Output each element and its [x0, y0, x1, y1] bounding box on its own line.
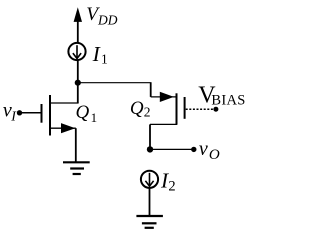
svg-text:2: 2: [168, 179, 175, 195]
ground (I2): [136, 216, 163, 228]
power supply VDD arrow: [74, 7, 82, 43]
ground (Q1 source): [63, 162, 90, 174]
svg-text:Q: Q: [130, 98, 144, 119]
label I2: [160, 168, 176, 194]
net label VDD: [86, 4, 118, 28]
input terminal vI dot and gate wire: [17, 110, 41, 115]
wire: I2 to ground: [149, 188, 151, 216]
wire: node A to Q2 source: [78, 83, 177, 97]
wire: Q1 source down to ground: [75, 128, 77, 162]
wire: node A down to Q1 drain lead: [49, 83, 78, 103]
transistor Q1 (NMOS, source arrow): [42, 95, 76, 136]
svg-text:Q: Q: [76, 102, 90, 123]
svg-text:DD: DD: [97, 12, 118, 27]
node B: output junction dot: [147, 146, 153, 152]
transistor Q2 (mirrored, source arrow pointing in): [160, 92, 185, 125]
label vO: [199, 138, 220, 163]
label I1: [92, 42, 108, 67]
node A: Q1 drain junction dot: [75, 80, 81, 86]
svg-text:BIAS: BIAS: [211, 93, 245, 109]
current source I1: [68, 43, 85, 60]
svg-text:2: 2: [144, 104, 151, 119]
svg-text:I: I: [10, 109, 17, 124]
label Q1: [76, 102, 98, 125]
wire: I1 bottom to node A: [77, 61, 79, 83]
svg-text:O: O: [209, 147, 220, 163]
svg-text:1: 1: [91, 110, 98, 125]
wire to vO terminal: [150, 147, 197, 152]
wire: Q2 drain to node B: [150, 124, 177, 149]
current source I2: [141, 171, 158, 188]
svg-text:1: 1: [101, 52, 108, 67]
net label VBIAS: [198, 83, 245, 109]
svg-text:v: v: [199, 138, 208, 160]
svg-text:I: I: [92, 42, 101, 66]
label vI: [3, 99, 17, 124]
dotted gate wire to VBIAS terminal: [186, 107, 219, 112]
label Q2: [130, 98, 151, 119]
